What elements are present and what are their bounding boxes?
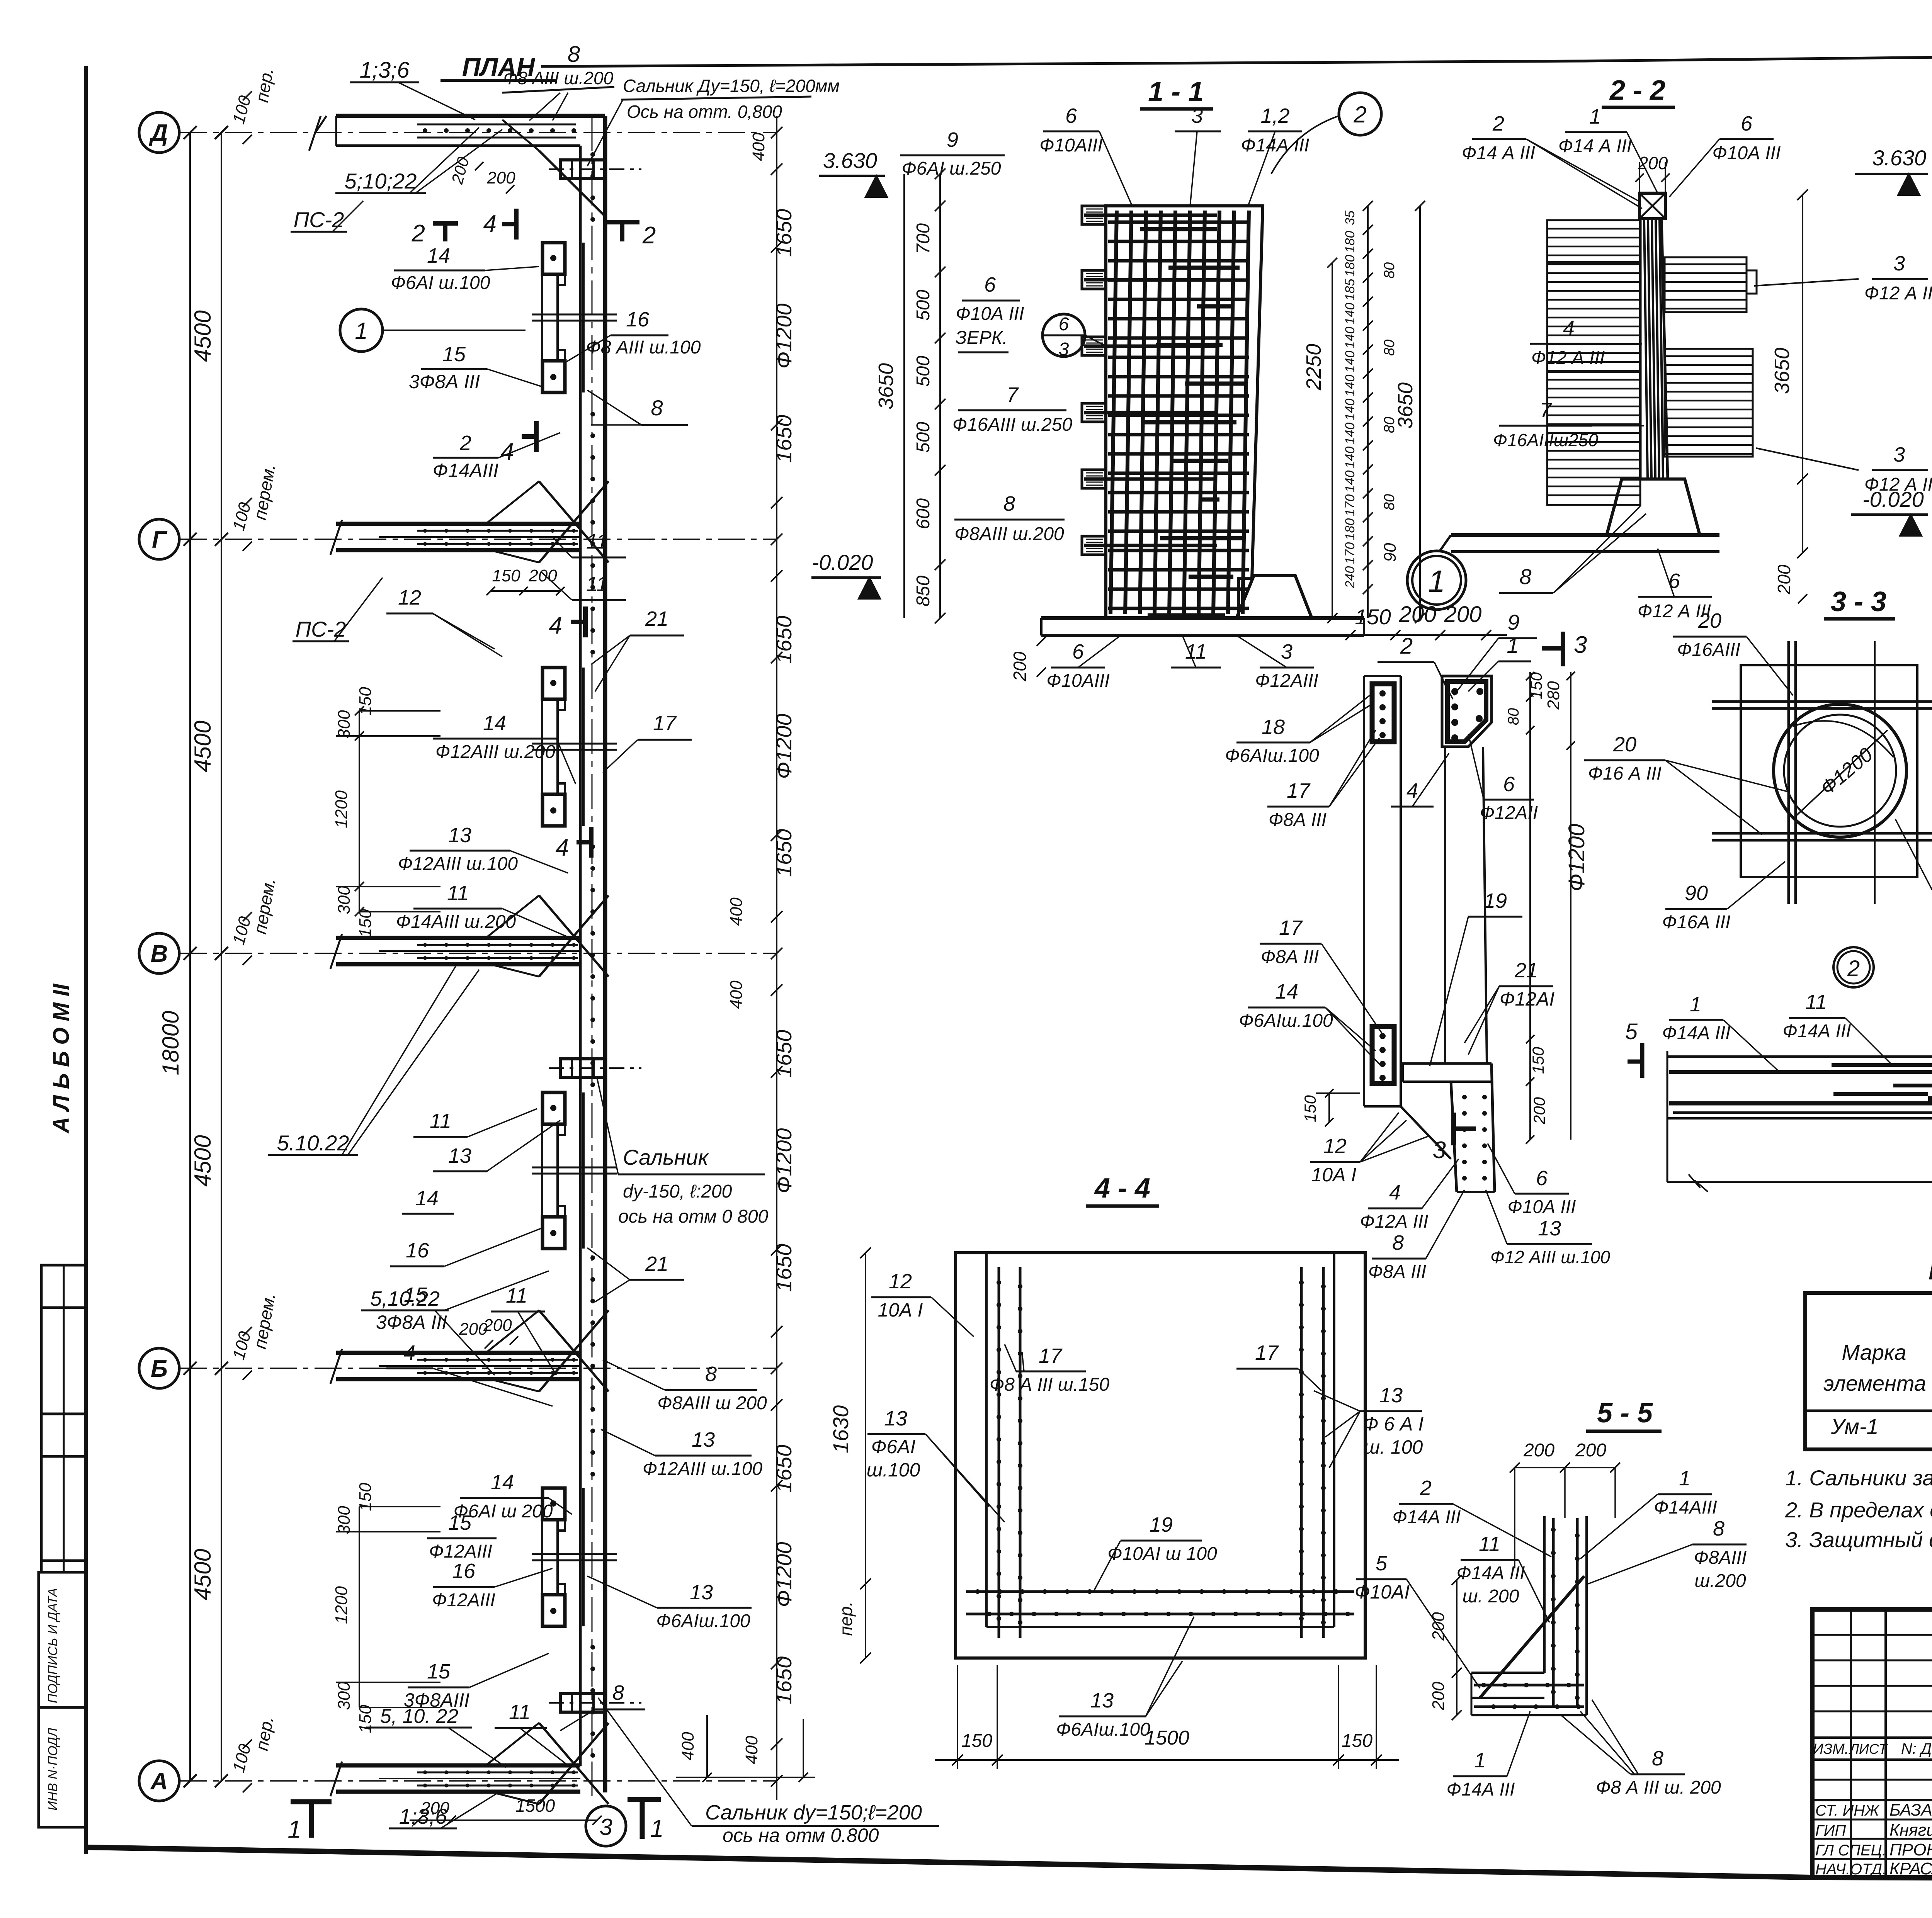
svg-text:Ф8АIII ш.200: Ф8АIII ш.200 [954,524,1064,544]
section 2-2 central wall [1640,219,1668,479]
svg-text:Ф12АIII: Ф12АIII [429,1541,492,1562]
svg-text:4: 4 [483,211,497,237]
main vertical wall [579,146,582,1766]
svg-text:11: 11 [506,1284,527,1307]
svg-text:Ф12АIII ш.200: Ф12АIII ш.200 [435,742,555,762]
vyborka outer frame [1805,1293,1932,1449]
svg-text:N: ДОКУМ.: N: ДОКУМ. [1901,1740,1932,1757]
svg-text:4 - 4: 4 - 4 [1094,1173,1150,1204]
circled 1 plan [340,309,383,352]
svg-text:13: 13 [1379,1384,1403,1407]
section 4-4 left wall rebars [998,1267,1000,1638]
svg-text:8: 8 [612,1681,624,1704]
svg-text:ЛИСТ: ЛИСТ [1849,1741,1888,1757]
svg-text:3.630: 3.630 [1872,146,1926,170]
svg-text:ш.200: ш.200 [1694,1571,1746,1591]
svg-text:Д: Д [149,120,168,146]
svg-text:1: 1 [1679,1467,1690,1490]
svg-text:-0.020: -0.020 [812,550,873,574]
svg-text:Ф14АIII ш.200: Ф14АIII ш.200 [396,912,516,932]
svg-text:170: 170 [1343,542,1357,564]
svg-text:1500: 1500 [515,1796,555,1816]
svg-text:11: 11 [509,1701,531,1724]
svg-text:21: 21 [645,1252,668,1276]
svg-text:16: 16 [406,1239,429,1262]
svg-text:140: 140 [1343,471,1357,493]
svg-text:ЗЕРК.: ЗЕРК. [955,328,1007,348]
svg-text:150: 150 [1301,1095,1319,1122]
wall opening 4 [556,1521,559,1594]
svg-text:3650: 3650 [1770,348,1794,394]
svg-text:20: 20 [1698,609,1721,632]
svg-text:Ф6АIш.100: Ф6АIш.100 [1225,746,1319,766]
beam rebar bars [1669,1070,1932,1074]
svg-text:Княгиничев: Княгиничев [1889,1821,1932,1840]
svg-text:2. В пределах отверстий арма: 2. В пределах отверстий арматуру вырезат… [1785,1498,1932,1522]
svg-text:Ф14А III: Ф14А III [1783,1021,1851,1041]
svg-text:3: 3 [1059,339,1069,360]
f1200 diagonal text and line [1797,730,1888,815]
svg-text:3: 3 [1893,252,1905,275]
svg-text:Ф1200: Ф1200 [772,1542,796,1607]
svg-text:1200: 1200 [332,790,351,828]
section mark 4 top [514,209,519,240]
svg-text:13: 13 [1090,1689,1114,1712]
svg-text:15: 15 [448,1511,472,1534]
svg-text:4: 4 [1563,317,1575,340]
page frame top border [541,61,1584,66]
svg-text:6: 6 [1503,773,1515,796]
section 3-3 grid bars horizontal top [1712,700,1932,703]
svg-text:17: 17 [1287,779,1311,802]
svg-text:500: 500 [913,290,934,321]
svg-text:Ф10А III: Ф10А III [1508,1197,1576,1217]
section 3-3 grid bars horizontal bottom [1712,832,1932,835]
svg-text:11: 11 [1805,990,1827,1014]
section 2-2 left hatch block [1547,220,1640,505]
svg-text:5,10.22: 5,10.22 [370,1287,440,1310]
svg-text:2: 2 [412,220,425,247]
svg-text:3Ф8А III: 3Ф8А III [409,371,480,392]
svg-text:300: 300 [335,1506,354,1534]
svg-text:2: 2 [1353,102,1366,127]
section 2-2 right dim [1802,195,1803,553]
svg-text:200: 200 [1399,602,1437,627]
svg-text:17: 17 [1255,1341,1279,1364]
svg-text:400: 400 [679,1732,697,1760]
svg-text:12: 12 [398,586,421,609]
svg-text:Ф14 А III: Ф14 А III [1558,136,1632,156]
svg-text:1650: 1650 [772,1445,796,1493]
svg-text:400: 400 [742,1736,761,1764]
sidebar stamp boxes upper [41,1265,86,1572]
svg-text:2250: 2250 [1302,344,1325,391]
svg-text:3: 3 [1281,640,1293,663]
svg-text:Ф10АIII: Ф10АIII [1039,135,1103,156]
svg-text:1650: 1650 [772,415,796,463]
svg-text:10А I: 10А I [1311,1164,1357,1186]
svg-text:Ф12АII: Ф12АII [1480,803,1538,823]
svg-text:Сальник dy=150;ℓ=200: Сальник dy=150;ℓ=200 [705,1801,922,1824]
svg-text:11: 11 [447,882,469,905]
section 3-3 grid bars vertical left [1787,641,1790,904]
svg-text:14: 14 [1275,980,1298,1003]
svg-text:5: 5 [1376,1552,1388,1575]
svg-text:Марка: Марка [1842,1340,1906,1364]
svg-text:4: 4 [556,834,569,861]
svg-text:Ф12АIII: Ф12АIII [432,1590,495,1611]
section mark 2 top-left [433,221,458,226]
svg-text:2 - 2: 2 - 2 [1609,75,1665,106]
svg-text:Ф8А III: Ф8А III [1368,1262,1426,1282]
svg-text:300: 300 [335,886,354,914]
section 2-2 ground slab [1451,533,1719,537]
axis В circle [139,933,179,973]
svg-text:ш. 100: ш. 100 [1364,1436,1423,1458]
svg-text:2: 2 [1400,634,1413,659]
middle detail top dim 150 200 200 [1341,634,1507,636]
svg-text:Ф12АIII ш.100: Ф12АIII ш.100 [643,1459,762,1479]
middle detail lower wall with dots [1451,1082,1457,1192]
svg-text:Б: Б [151,1356,168,1382]
svg-text:пер.: пер. [836,1601,856,1636]
section 4-4 bottom rebars [966,1590,1354,1593]
svg-text:11: 11 [430,1109,451,1133]
svg-text:4: 4 [549,612,562,639]
section 1-1 base foot [1236,576,1312,618]
svg-text:Ф12АI: Ф12АI [1500,988,1555,1010]
svg-text:150: 150 [1529,1046,1547,1074]
svg-text:Выборка арматуры на один э: Выборка арматуры на один элемент [1928,1253,1932,1286]
section 3-3 grid bars vertical right [1874,641,1876,904]
svg-text:Ф 6 А I: Ф 6 А I [1363,1413,1424,1435]
axis Г X-brace at wall junction [539,481,609,562]
svg-text:2: 2 [1492,112,1504,135]
svg-text:Ф1200: Ф1200 [772,303,796,369]
svg-text:200: 200 [1530,1097,1548,1125]
svg-text:2: 2 [642,222,656,249]
svg-text:4: 4 [501,438,514,465]
svg-text:80: 80 [1381,340,1398,356]
svg-text:16: 16 [452,1560,476,1583]
svg-text:Ф16 А III: Ф16 А III [1588,763,1662,784]
svg-text:6: 6 [1741,112,1753,135]
svg-text:3: 3 [599,1814,612,1840]
svg-text:Ф10АIII: Ф10АIII [1046,671,1110,691]
svg-text:4500: 4500 [190,720,216,772]
section mark 3 bottom [1451,1113,1456,1145]
svg-text:Ф6АIш.100: Ф6АIш.100 [1239,1011,1333,1031]
wall at axis Б [336,1351,580,1355]
svg-text:4: 4 [404,1341,415,1364]
svg-text:200: 200 [1638,153,1668,173]
svg-text:2: 2 [1847,956,1860,981]
wall at axis В [336,936,580,940]
beam detail outline [1667,1051,1668,1182]
label 400 bottom [706,1715,708,1777]
svg-text:1: 1 [1589,105,1601,128]
svg-text:150: 150 [356,1705,375,1733]
axis А centerline [180,1780,777,1782]
svg-text:280: 280 [1544,681,1563,710]
svg-text:5;10;22: 5;10;22 [345,169,417,193]
wall at axis А [336,1763,580,1768]
page frame left border [84,66,88,1854]
section 1-1 ground slab [1041,616,1364,620]
svg-text:Ф10АI: Ф10АI [1355,1581,1410,1603]
svg-text:11: 11 [586,573,608,596]
svg-text:Ф14А III: Ф14А III [1662,1023,1731,1043]
axis В X-brace at wall junction [539,895,609,977]
svg-text:Ф14А III: Ф14А III [1393,1507,1461,1527]
svg-text:Ф14 А III: Ф14 А III [1462,143,1535,163]
section 1-1 left dim ladder [939,174,941,618]
svg-text:Ф12 АIII ш.100: Ф12 АIII ш.100 [1490,1247,1610,1267]
circled 1 below 1-1 [1407,551,1466,610]
svg-text:9: 9 [947,128,958,151]
middle detail right strip [1442,676,1492,747]
svg-text:ось на отм 0.800: ось на отм 0.800 [723,1825,879,1846]
svg-text:ГЛ СПЕЦ.: ГЛ СПЕЦ. [1815,1842,1886,1859]
svg-text:80: 80 [1505,708,1522,725]
svg-text:17: 17 [1279,916,1303,939]
svg-text:8: 8 [651,396,663,420]
svg-text:140: 140 [1343,327,1357,349]
svg-text:13: 13 [448,1144,471,1167]
svg-text:18: 18 [1262,715,1285,739]
svg-text:Ф12 А III: Ф12 А III [1864,474,1932,495]
svg-text:7: 7 [1007,383,1019,406]
svg-text:Ф14АIII: Ф14АIII [433,460,498,481]
section mark 1 bottom-left [291,1799,332,1804]
svg-text:БАЗАНОВ: БАЗАНОВ [1889,1801,1932,1819]
svg-text:Ф8А III: Ф8А III [1269,810,1327,830]
svg-text:Ф16АIIIш250: Ф16АIIIш250 [1493,430,1598,450]
svg-text:1500: 1500 [1145,1727,1189,1749]
svg-text:1: 1 [355,318,367,344]
salnik gland symbol [560,1059,605,1077]
sidebar stamp boxes lower [39,1572,86,1827]
svg-text:2: 2 [459,432,471,455]
title block left table rows [1812,1634,1932,1636]
section mark T1 bottom-right [628,1797,661,1802]
svg-text:180: 180 [1343,255,1357,277]
svg-text:2: 2 [1420,1476,1432,1500]
svg-text:1: 1 [1690,993,1701,1016]
svg-text:200: 200 [1429,1682,1448,1711]
svg-text:5: 5 [1625,1019,1638,1044]
svg-text:13: 13 [448,824,471,847]
svg-text:11: 11 [1479,1532,1500,1556]
wall opening 3 [556,1125,559,1216]
svg-text:Ф8 АIII ш.200: Ф8 АIII ш.200 [503,68,614,88]
svg-text:140: 140 [1343,375,1357,397]
svg-text:4500: 4500 [190,1549,216,1600]
svg-text:Ф16АIII ш.250: Ф16АIII ш.250 [952,415,1072,435]
svg-text:6: 6 [984,273,996,296]
svg-text:Ф14АIII: Ф14АIII [1654,1497,1717,1518]
svg-text:5 - 5: 5 - 5 [1597,1398,1653,1429]
svg-text:150: 150 [492,566,520,585]
svg-text:15: 15 [442,343,466,366]
svg-text:1650: 1650 [772,1030,796,1078]
svg-text:13: 13 [884,1407,907,1430]
axis Б centerline [180,1368,777,1369]
svg-text:Ф14А III: Ф14А III [1447,1779,1515,1800]
svg-text:11: 11 [1185,640,1207,663]
wall reinforcement dots [590,152,595,157]
middle detail left strip [1363,676,1365,1106]
wall at axis Г [336,522,580,526]
svg-text:Ф14А III: Ф14А III [1457,1563,1525,1583]
svg-text:17: 17 [653,712,677,735]
wall opening 2 [556,700,559,793]
svg-text:150: 150 [961,1731,992,1751]
svg-text:400: 400 [727,897,746,926]
svg-text:Ф1200: Ф1200 [1564,824,1589,891]
section 4-4 right wall rebars [1300,1267,1303,1638]
svg-text:Сальник Ду=150, ℓ=200мм: Сальник Ду=150, ℓ=200мм [623,76,840,96]
section 5-5 left dims [1456,1580,1458,1715]
title block outer [1812,1609,1932,1877]
svg-text:8: 8 [1392,1231,1404,1254]
svg-text:11: 11 [586,530,608,553]
svg-text:1: 1 [650,1814,664,1842]
circled 3 bottom [586,1806,626,1846]
middle detail diagonal bottom [1401,1106,1451,1159]
svg-text:Ф6АIш.100: Ф6АIш.100 [1056,1719,1150,1740]
svg-text:6: 6 [1668,569,1680,593]
svg-text:12: 12 [889,1270,912,1293]
svg-text:13: 13 [690,1581,713,1604]
svg-text:1: 1 [287,1815,301,1843]
svg-text:21: 21 [1514,959,1538,982]
middle detail left strip bottom box [1372,1026,1394,1084]
svg-text:12: 12 [1323,1135,1347,1158]
svg-text:4: 4 [1406,779,1418,802]
svg-text:СТ. ИНЖ: СТ. ИНЖ [1815,1802,1880,1819]
svg-text:80: 80 [1381,494,1398,510]
svg-text:300: 300 [335,1682,354,1710]
salnik gland symbol [560,160,605,178]
page frame bottom border [86,1847,1812,1877]
svg-text:Ф1200: Ф1200 [772,1128,796,1193]
axis А circle [139,1761,179,1801]
svg-text:ось на отм 0 800: ось на отм 0 800 [618,1206,769,1227]
svg-text:140: 140 [1343,399,1357,421]
svg-text:1,2: 1,2 [1260,104,1289,127]
svg-text:ИНВ N·ПОДЛ: ИНВ N·ПОДЛ [46,1728,60,1811]
svg-text:8: 8 [1652,1747,1663,1770]
svg-text:1. Сальники заложить по сери: 1. Сальники заложить по серии 3.901-5 в … [1785,1466,1932,1490]
svg-text:Г: Г [152,527,168,553]
svg-text:700: 700 [913,223,934,254]
svg-text:8: 8 [705,1362,717,1386]
section mark 5 upper [1640,1043,1645,1078]
svg-text:ПС-2: ПС-2 [296,617,346,641]
svg-text:Ф10А III: Ф10А III [1713,143,1781,163]
svg-text:3.630: 3.630 [823,148,877,173]
svg-text:35: 35 [1343,211,1357,225]
top wall at axis Д [336,114,605,118]
svg-text:200: 200 [486,168,515,187]
svg-text:13: 13 [692,1428,715,1451]
axis Г circle [139,519,179,559]
axis Г centerline [180,539,777,540]
section 3-3 square slab [1741,665,1917,877]
wall opening 1 [556,275,559,360]
axis Д centerline [180,132,777,133]
svg-text:1: 1 [1474,1749,1486,1772]
svg-text:6: 6 [1536,1167,1548,1190]
svg-text:200: 200 [420,1799,449,1818]
axis В centerline [180,953,777,954]
svg-text:НАЧ.ОТД.: НАЧ.ОТД. [1815,1861,1886,1878]
svg-text:ИЗМ.: ИЗМ. [1813,1741,1849,1757]
svg-text:80: 80 [1381,262,1398,279]
svg-text:140: 140 [1343,351,1357,373]
svg-text:17: 17 [1039,1344,1063,1368]
svg-text:200: 200 [483,1316,512,1335]
svg-text:Ф8 А III ш.150: Ф8 А III ш.150 [990,1374,1109,1395]
svg-text:200: 200 [1010,651,1030,681]
svg-text:9: 9 [1507,610,1519,634]
svg-text:3: 3 [1893,443,1905,466]
wall corner chamfer at Д [539,151,605,216]
svg-text:1650: 1650 [772,829,796,877]
section 2-2 right hatch lower [1665,349,1753,457]
svg-text:8: 8 [1519,564,1531,589]
svg-text:5, 10. 22: 5, 10. 22 [380,1705,458,1728]
section 3-3 pipe circles [1774,704,1906,837]
axis Б X-brace at wall junction [539,1310,609,1391]
section 2-2 right hatch upper [1665,257,1747,312]
svg-text:14: 14 [483,712,506,735]
svg-text:150: 150 [1355,605,1391,629]
svg-text:Сальник: Сальник [623,1145,709,1169]
svg-text:850: 850 [913,576,934,606]
svg-text:600: 600 [913,498,934,529]
svg-text:3 - 3: 3 - 3 [1831,586,1886,617]
svg-text:14: 14 [427,244,450,267]
svg-text:1630: 1630 [828,1405,853,1454]
section 5-5 rebars [1552,1518,1555,1707]
circled 2 below 3-3 [1833,947,1874,987]
axis Д circle [139,112,179,153]
svg-text:90: 90 [1381,543,1400,562]
svg-text:1650: 1650 [772,616,796,664]
svg-text:Ф10АI ш 100: Ф10АI ш 100 [1107,1544,1217,1564]
svg-text:8: 8 [1713,1517,1725,1540]
circled 6/3 [1043,314,1085,357]
svg-text:6: 6 [1059,314,1069,335]
svg-text:1;3;6: 1;3;6 [360,58,410,83]
svg-text:140: 140 [1343,447,1357,469]
svg-text:Ф6АI ш.100: Ф6АI ш.100 [391,273,490,293]
svg-text:200: 200 [1444,602,1482,627]
circled 2 with leader [1339,93,1381,135]
svg-text:Ф12АIII: Ф12АIII [1255,671,1318,691]
section 5-5 top dim [1515,1467,1615,1468]
svg-text:элемента: элемента [1823,1371,1926,1395]
svg-text:200: 200 [1575,1440,1606,1461]
svg-text:3Ф8А III: 3Ф8А III [376,1312,447,1333]
svg-text:14: 14 [491,1471,514,1494]
svg-text:1650: 1650 [772,1656,796,1705]
svg-text:400: 400 [727,980,746,1009]
svg-text:90: 90 [1685,882,1708,905]
svg-text:200: 200 [1523,1440,1554,1461]
